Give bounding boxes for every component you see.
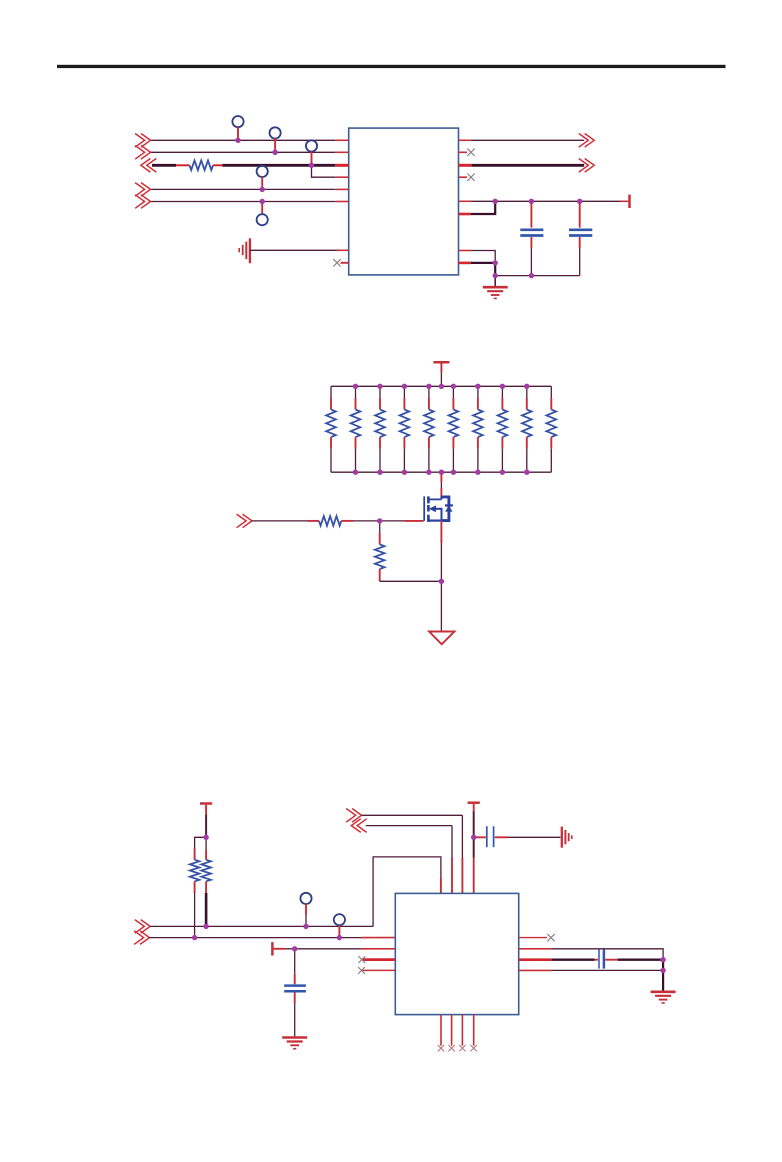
ground GND3 bars [282, 1036, 307, 1039]
power terminal VDD bar [628, 195, 631, 208]
wire netD [366, 825, 452, 827]
wire net2 to U1 pin2 [151, 151, 336, 153]
junction rail/C2 [577, 199, 582, 204]
capacitor C3 top lead [294, 949, 296, 974]
capacitor C2 plates [569, 228, 592, 231]
wire netC [362, 814, 463, 816]
wire netB [150, 937, 370, 939]
junction top rail/VCC [439, 384, 444, 389]
junction V2/C4 [471, 835, 476, 840]
port P11 chevron [346, 809, 361, 823]
port P1 chevron [135, 134, 150, 148]
wire Q1 drain [440, 472, 442, 482]
no-connect X U1 pin8 [341, 262, 349, 264]
no-connect X U2 left pin3 [362, 958, 395, 961]
junction net4/TP4 [260, 187, 265, 192]
no-connect X U2 left pin4 [362, 969, 395, 971]
wire net1 to U1 pin1 [151, 139, 336, 141]
wire TP4 stub [261, 177, 263, 190]
power terminal VCC array bar [433, 361, 449, 364]
wire netG bus left [519, 958, 552, 961]
port P8 chevron [237, 514, 252, 528]
resistor RN9 [526, 386, 528, 398]
ground AGND left bars [249, 238, 251, 263]
ground AGND2 right bars [561, 827, 563, 848]
resistor R1 series [190, 161, 214, 171]
resistor RN8 [501, 386, 503, 398]
capacitor C1 plates [520, 228, 543, 231]
capacitor C3 plates [284, 984, 306, 987]
junction gate/R3 [377, 518, 382, 523]
port P7 chevron [579, 159, 594, 173]
junction netE/C3 [292, 946, 297, 951]
wire U1 pinH [459, 262, 472, 265]
wire VCC stem [440, 363, 442, 373]
ground GND1 stem [494, 276, 496, 288]
power terminal V2 bar [468, 801, 480, 804]
resistor RN6 [452, 386, 454, 398]
no-connect X U2 bottom pin2 [451, 1015, 453, 1046]
resistor RN10 [550, 386, 552, 398]
ground GND4 bars [651, 990, 676, 993]
junction bottom rail/C1 [529, 273, 534, 278]
wire TP3 stub [311, 151, 313, 165]
ground GND2 triangle [429, 632, 454, 645]
wire array bottom rail [331, 471, 551, 473]
junction net5/TP5 [260, 199, 265, 204]
resistor RN7 [477, 386, 479, 398]
wire netE [272, 948, 285, 950]
wire gate net left [252, 520, 308, 522]
junction bottom rail [493, 273, 498, 278]
resistor RN3 [379, 386, 381, 398]
port P9 chevron [135, 920, 150, 934]
capacitor C1 top lead [530, 201, 532, 227]
wire U1 pinG [459, 250, 472, 252]
junction R5/netA [203, 924, 208, 929]
wire netF [519, 948, 552, 950]
port P10 chevron [134, 931, 149, 945]
port P2 chevron [135, 146, 150, 160]
wire netG bus right [605, 959, 617, 961]
no-connect X U2 bottom pin1 [440, 1015, 442, 1046]
test point TP3 circle [306, 140, 317, 151]
capacitor C5 plates [598, 949, 600, 968]
wire out1 to port P6 [459, 139, 471, 141]
resistor R4 left [195, 837, 207, 848]
resistor R2 gate series [319, 516, 341, 526]
wire VDD rail [459, 200, 472, 202]
port P6 chevron [579, 134, 594, 148]
capacitor C3 bottom lead [294, 993, 296, 1004]
junction netH [660, 968, 665, 973]
IC U2 body [395, 893, 518, 1014]
wire down to bottom rail [494, 263, 496, 276]
wire U2 L3 tbar terminal [271, 942, 274, 955]
capacitor C2 bottom lead [579, 237, 581, 248]
capacitor C1 bottom lead [530, 237, 532, 248]
test point TP5 circle [257, 214, 268, 225]
wire netH [519, 969, 552, 971]
no-connect X U1 right pin2 [459, 151, 468, 153]
junction netB/circleB [337, 935, 342, 940]
wire net4 to U1 pin5 [151, 188, 336, 190]
test point TP6 circle [300, 893, 311, 904]
wire TP2 stub [274, 138, 276, 152]
junction V1/R4/R5 [203, 835, 208, 840]
capacitor C4 right lead [495, 836, 508, 838]
port P3 chevron input [141, 159, 156, 173]
transistor Q1 nmos [424, 496, 453, 522]
wire net5 to U1 pin6 [151, 201, 336, 203]
ground GND1 bars [483, 286, 508, 289]
wire TP7 stub [338, 925, 340, 938]
wire down to GND4 [662, 960, 664, 992]
resistor R3 pulldown [379, 521, 381, 532]
test point TP2 circle [270, 127, 281, 138]
wire TP1 stub [237, 127, 239, 140]
test point TP7 circle [334, 914, 345, 925]
junction source/R3 [439, 579, 444, 584]
test point TP1 circle [232, 116, 243, 127]
wire gate net right [341, 520, 353, 522]
wire array top rail [331, 385, 551, 387]
junction rail/pinF [493, 199, 498, 204]
wire netA [150, 925, 373, 927]
wire R3 to source [380, 580, 442, 582]
junction R4/netB [192, 935, 197, 940]
junction net3 branch [309, 163, 314, 168]
wire V1 stem [205, 805, 207, 815]
no-connect X U2 bottom pin3 [461, 1015, 463, 1046]
wire out2 bus to port P7 [459, 164, 472, 167]
junction netF/netG [660, 957, 665, 962]
wire bottom rail [495, 275, 580, 277]
capacitor C4 plates [486, 826, 488, 847]
junction bottom rail/Q1 [439, 470, 444, 475]
wire AGND to U1 pin7 [250, 249, 337, 251]
test point TP4 circle [257, 166, 268, 177]
wire net3 bus segment left [152, 164, 176, 167]
resistor RN4 [403, 386, 405, 398]
resistor RN2 [355, 386, 357, 398]
junction rail/C1 [529, 199, 534, 204]
junction net1/TP1 [235, 138, 240, 143]
no-connect X U2 bottom pin4 [473, 1015, 475, 1046]
port P12 chevron input [351, 819, 366, 833]
capacitor C4 left lead [474, 836, 486, 838]
wire net3 branch to U1 pin4 [312, 165, 336, 177]
no-connect X U1 right pin4 [459, 176, 468, 178]
junction netA/circleA [303, 924, 308, 929]
port P4 chevron [135, 183, 150, 197]
junction pinG/pinH [493, 260, 498, 265]
title block separator rule [57, 65, 726, 68]
port P5 chevron [135, 195, 150, 209]
wire U1 pinF up to rail [459, 213, 472, 216]
wire V2 stem [473, 804, 475, 811]
IC U1 body [349, 128, 459, 275]
resistor RN1 [330, 386, 332, 398]
no-connect X U2 right pin1 [519, 937, 547, 939]
power terminal V1 bar [200, 802, 212, 805]
resistor RN5 [428, 386, 430, 398]
wire net3 bus segment right [213, 164, 223, 166]
wire Q1 source [440, 521, 442, 543]
wire TP6 stub [305, 904, 307, 915]
junction net2/TP2 [272, 150, 277, 155]
resistor R5 right [205, 837, 207, 850]
capacitor C2 top lead [579, 201, 581, 227]
wire TP5 stub [261, 202, 263, 215]
